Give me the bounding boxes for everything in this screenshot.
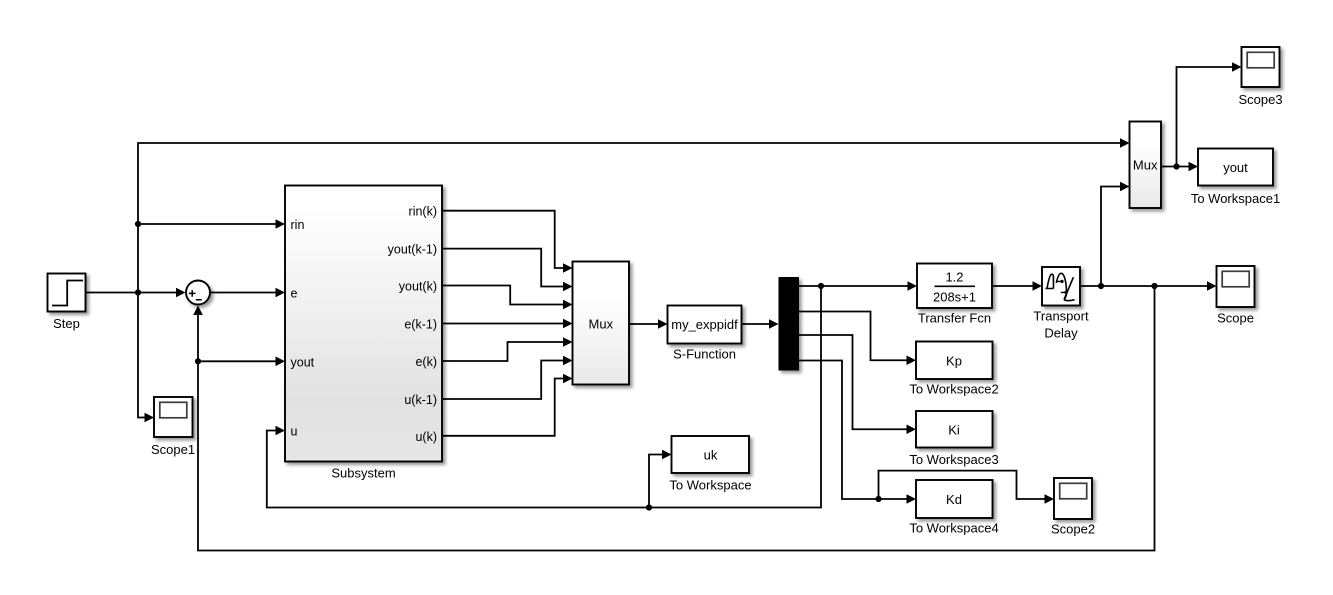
- svg-text:1.2: 1.2: [945, 270, 963, 285]
- wire yout(k-1) to Mux: [442, 249, 573, 292]
- block Step: [48, 274, 86, 332]
- svg-text:uk: uk: [704, 448, 718, 463]
- svg-text:yout(k-1): yout(k-1): [388, 243, 437, 257]
- port label u: [291, 425, 298, 439]
- port label rin(k): [409, 205, 437, 219]
- port label e(k-1): [404, 318, 437, 332]
- block Kd: [909, 480, 998, 536]
- port label u(k-1): [404, 393, 437, 407]
- svg-text:u(k-1): u(k-1): [404, 393, 437, 407]
- svg-text:Mux: Mux: [589, 317, 614, 332]
- svg-text:my_exppidf: my_exppidf: [671, 317, 738, 332]
- block Ki: [909, 411, 998, 467]
- wire u feedback loop to u port: [267, 286, 821, 508]
- junction dot yout branch: [195, 358, 201, 364]
- wire Demux out3 to Ki: [799, 335, 916, 434]
- block Scope: [1217, 266, 1255, 326]
- svg-text:Transfer Fcn: Transfer Fcn: [918, 311, 991, 326]
- block yout To Workspace1: [1191, 149, 1280, 207]
- svg-text:To Workspace2: To Workspace2: [909, 382, 998, 397]
- svg-text:rin(k): rin(k): [409, 205, 437, 219]
- svg-text:208s+1: 208s+1: [933, 290, 976, 305]
- wire Sum to e: [211, 288, 286, 298]
- svg-text:To Workspace1: To Workspace1: [1191, 191, 1280, 206]
- svg-text:yout(k): yout(k): [399, 280, 437, 294]
- junction dot rin branch: [135, 221, 141, 227]
- svg-text:rin: rin: [291, 218, 305, 232]
- wire Transfer Fcn to Transport Delay: [992, 281, 1042, 291]
- wire branch to yout port: [198, 357, 285, 367]
- port label rin: [291, 218, 305, 232]
- block Scope1: [151, 397, 195, 457]
- svg-text:To Workspace: To Workspace: [669, 478, 751, 493]
- junction dot step branch: [135, 289, 141, 295]
- svg-text:Ki: Ki: [948, 422, 960, 437]
- svg-text:e(k): e(k): [415, 355, 437, 369]
- svg-text:u: u: [291, 425, 298, 439]
- wire branch up to Scope3: [1177, 62, 1242, 166]
- svg-text:u(k): u(k): [415, 430, 437, 444]
- port label yout: [291, 355, 315, 369]
- block Subsystem: [285, 186, 442, 481]
- block S-Function: [668, 306, 742, 362]
- wire bottom feedback to Sum minus input: [193, 286, 1154, 551]
- wire Step to Sum: [86, 288, 186, 298]
- wire S-Function to Demux: [742, 319, 779, 329]
- wire branch Kd input to Scope2: [879, 471, 1055, 504]
- port label e(k): [415, 355, 437, 369]
- block Mux2: [1130, 122, 1162, 209]
- port label yout(k-1): [388, 243, 437, 257]
- wire branch to uk: [649, 450, 672, 508]
- svg-text:Scope: Scope: [1217, 311, 1254, 326]
- svg-text:e: e: [291, 287, 298, 301]
- junction dot bottom feedback branch: [1151, 283, 1157, 289]
- svg-text:Mux: Mux: [1133, 158, 1158, 173]
- junction dot uk branch: [646, 504, 652, 510]
- svg-text:Scope2: Scope2: [1051, 522, 1095, 537]
- wire yout(k) to Mux: [442, 286, 573, 310]
- wire feedback up to Mux2 input1: [138, 138, 1130, 292]
- svg-text:Transport: Transport: [1033, 309, 1089, 324]
- svg-text:To Workspace3: To Workspace3: [909, 452, 998, 467]
- block Mux1: [573, 262, 630, 385]
- svg-text:yout: yout: [291, 355, 315, 369]
- wire Mux2 to yout block: [1161, 162, 1198, 172]
- svg-text:S-Function: S-Function: [673, 347, 736, 362]
- wire Demux out4 to Kd: [799, 361, 916, 504]
- wire u(k-1) to Mux: [442, 356, 573, 399]
- wire u(k) to Mux: [442, 374, 573, 436]
- wire branch up to Mux2 input2: [1101, 182, 1130, 286]
- svg-text:e(k-1): e(k-1): [404, 318, 437, 332]
- block uk To Workspace: [669, 436, 751, 493]
- wire e(k) to Mux: [442, 337, 573, 361]
- sum block: [186, 281, 210, 305]
- wire Mux to S-Function: [629, 319, 668, 329]
- port label yout(k): [399, 280, 437, 294]
- svg-text:Step: Step: [53, 316, 80, 331]
- block Scope2: [1051, 478, 1095, 537]
- wire rin(k) to Mux: [442, 211, 573, 273]
- svg-text:Kd: Kd: [946, 492, 962, 507]
- svg-text:To Workspace4: To Workspace4: [909, 521, 998, 536]
- wire branch down to Scope1: [138, 293, 154, 423]
- svg-text:yout: yout: [1223, 160, 1248, 175]
- svg-text:Subsystem: Subsystem: [331, 466, 395, 481]
- demux black bar: [779, 277, 800, 371]
- junction dot kd scope2 branch: [875, 496, 881, 502]
- junction dot demux out1: [818, 283, 824, 289]
- wire Demux out1 to Transfer Fcn: [799, 281, 917, 291]
- wire branch to rin: [138, 219, 285, 229]
- svg-text:Scope1: Scope1: [151, 442, 195, 457]
- port label e: [291, 287, 298, 301]
- svg-text:Delay: Delay: [1044, 326, 1078, 341]
- junction dot mux2 out: [1173, 163, 1179, 169]
- block Kp: [909, 342, 998, 397]
- svg-text:Kp: Kp: [946, 353, 962, 368]
- block Transfer Fcn: [917, 264, 992, 326]
- block Transport Delay: [1033, 267, 1089, 341]
- wire Transport Delay to Scope: [1080, 281, 1217, 291]
- svg-text:Scope3: Scope3: [1238, 92, 1282, 107]
- wire Demux out2 to Kp: [799, 312, 916, 366]
- junction dot after transport delay: [1098, 283, 1104, 289]
- wire e(k-1) to Mux: [442, 319, 573, 329]
- block Scope3: [1238, 47, 1282, 107]
- port label u(k): [415, 430, 437, 444]
